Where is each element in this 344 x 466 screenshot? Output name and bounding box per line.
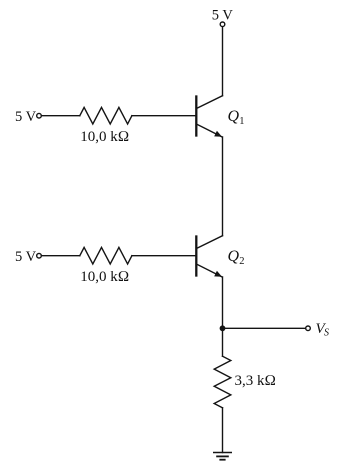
transistor Q1 emitter arrow xyxy=(214,131,222,137)
wire VCC to Q1 collector xyxy=(222,27,224,96)
node input A terminal circle xyxy=(37,113,42,118)
node VCC terminal circle xyxy=(220,22,225,27)
svg-text:3,3 kΩ: 3,3 kΩ xyxy=(235,373,277,389)
resistor R1 zigzag 10,0 kOhm xyxy=(80,107,132,124)
wire Q1 emitter to Q2 collector xyxy=(222,137,224,236)
node VS output terminal circle xyxy=(306,326,311,331)
wire input A to resistor R1 xyxy=(42,115,80,117)
svg-text:10,0 kΩ: 10,0 kΩ xyxy=(80,129,129,145)
wire input B to resistor R2 xyxy=(42,255,80,257)
svg-text:5 V: 5 V xyxy=(212,8,234,24)
transistor Q2 emitter diagonal xyxy=(197,264,223,277)
svg-text:Q: Q xyxy=(228,108,240,125)
ground symbol xyxy=(213,453,232,460)
svg-text:1: 1 xyxy=(239,116,244,127)
wire Q2 emitter to node VS xyxy=(222,277,224,328)
transistor Q1 emitter diagonal xyxy=(197,124,223,137)
svg-text:Q: Q xyxy=(228,248,240,265)
svg-text:5 V: 5 V xyxy=(15,109,37,125)
svg-text:5 V: 5 V xyxy=(15,249,37,265)
node VS junction dot xyxy=(220,325,226,331)
wire resistor R3 to ground xyxy=(222,408,224,453)
node input B terminal circle xyxy=(37,253,42,258)
resistor R3 zigzag 3,3 kOhm xyxy=(214,356,231,408)
transistor Q2 collector diagonal xyxy=(197,236,223,249)
transistor Q1 collector diagonal xyxy=(197,96,223,109)
transistor Q2 emitter arrow xyxy=(214,271,222,277)
svg-text:10,0 kΩ: 10,0 kΩ xyxy=(80,269,129,285)
transistor Q2 base bar xyxy=(195,237,197,276)
wire resistor R1 to Q1 base xyxy=(132,115,195,117)
resistor R2 zigzag 10,0 kOhm xyxy=(80,247,132,264)
transistor Q1 base bar xyxy=(195,97,197,136)
wire node VS to resistor R3 xyxy=(222,328,224,356)
svg-text:2: 2 xyxy=(239,256,244,267)
svg-text:S: S xyxy=(324,328,329,339)
wire node VS to output terminal xyxy=(223,327,306,329)
wire resistor R2 to Q2 base xyxy=(132,255,195,257)
